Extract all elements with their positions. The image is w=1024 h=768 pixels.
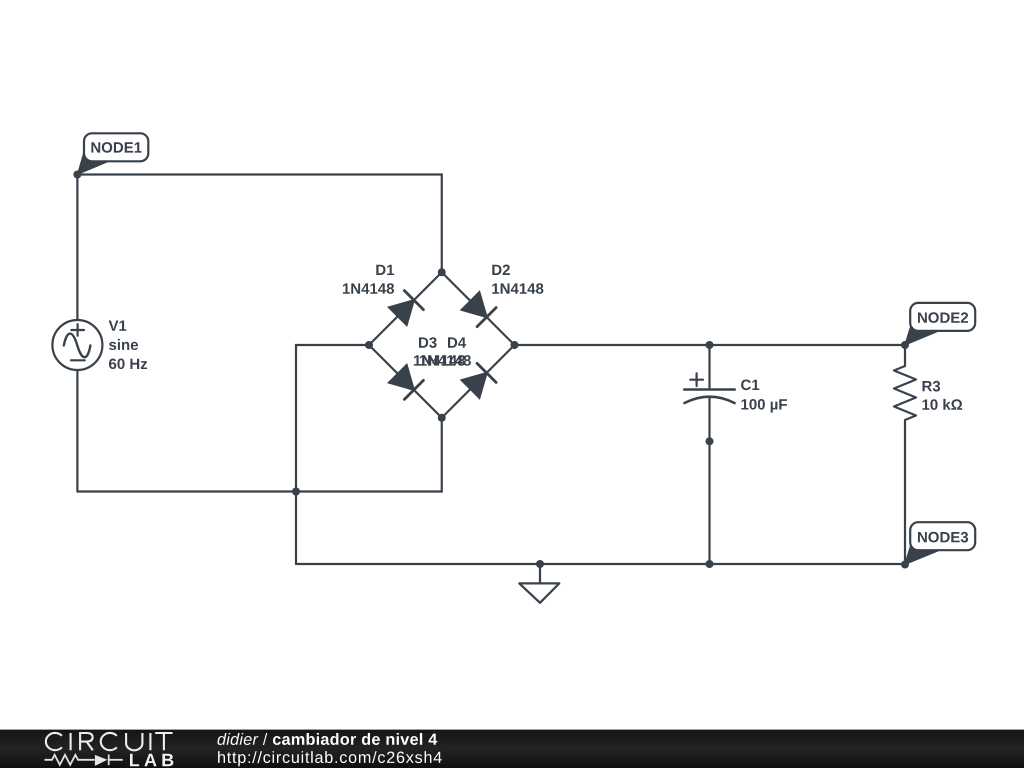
- label D4: [448, 337, 466, 347]
- label D1 1N4148: [343, 265, 394, 294]
- diode bridge diamond outline: [369, 272, 515, 418]
- wire C1 bottom lead to ground rail: [708, 398, 710, 565]
- wire bridge right corner to NODE2 column: [515, 344, 906, 346]
- C1 ground rail junction: [706, 560, 714, 568]
- wire lower-left loop to bridge bottom corner: [77, 418, 441, 492]
- wire bridge left corner to left then down to ground rail: [296, 345, 369, 564]
- bridge bottom junction: [438, 414, 446, 422]
- footer url: [218, 751, 442, 766]
- footer bar: [0, 730, 1024, 768]
- wire NODE1 down to V1 plus terminal: [76, 175, 78, 321]
- wire bottom ground rail: [296, 563, 905, 565]
- wire C1 top lead: [708, 345, 710, 389]
- label D4 value 1N4148: [420, 355, 471, 366]
- node NODE2 junction: [901, 341, 909, 349]
- resistor R3: [894, 366, 916, 420]
- node tag NODE2: [905, 303, 976, 345]
- logo LAB text: [130, 754, 173, 766]
- ground tap junction: [536, 560, 544, 568]
- crossing junction at lower-left: [292, 488, 300, 496]
- node NODE1 junction: [73, 171, 81, 179]
- voltage source V1: [52, 320, 102, 370]
- node NODE3 junction: [901, 561, 909, 569]
- C1 bottom terminal junction: [706, 437, 714, 445]
- label D2 1N4148: [492, 265, 543, 294]
- logo resistor-diode squiggle: [45, 755, 123, 766]
- diode D4: [461, 363, 496, 398]
- wire V1 minus terminal down to bottom-left corner: [76, 370, 78, 492]
- node tag NODE3: [905, 522, 976, 564]
- wire R3 top lead: [904, 345, 906, 366]
- ground: [519, 564, 559, 603]
- label C1 100 uF: [741, 380, 787, 413]
- bridge top junction: [438, 268, 446, 276]
- bridge right junction: [511, 341, 519, 349]
- bridge left junction: [365, 341, 373, 349]
- label V1 sine 60 Hz: [109, 321, 148, 370]
- footer title didier / cambiador de nivel 4: [218, 733, 438, 745]
- node tag NODE1: [77, 133, 148, 174]
- diode D3: [388, 364, 423, 399]
- label D3 value 1N4148: [414, 355, 465, 366]
- wire top rail from NODE1 to bridge top: [77, 175, 441, 273]
- wire R3 bottom lead to NODE3: [904, 420, 906, 565]
- capacitor C1: [684, 373, 734, 403]
- diode D1: [388, 291, 423, 326]
- diode D2: [461, 292, 496, 327]
- C1 top junction: [706, 341, 714, 349]
- logo CIRCUIT text: [46, 733, 173, 750]
- label R3 10 kOhm: [922, 381, 962, 410]
- label D3: [419, 337, 437, 348]
